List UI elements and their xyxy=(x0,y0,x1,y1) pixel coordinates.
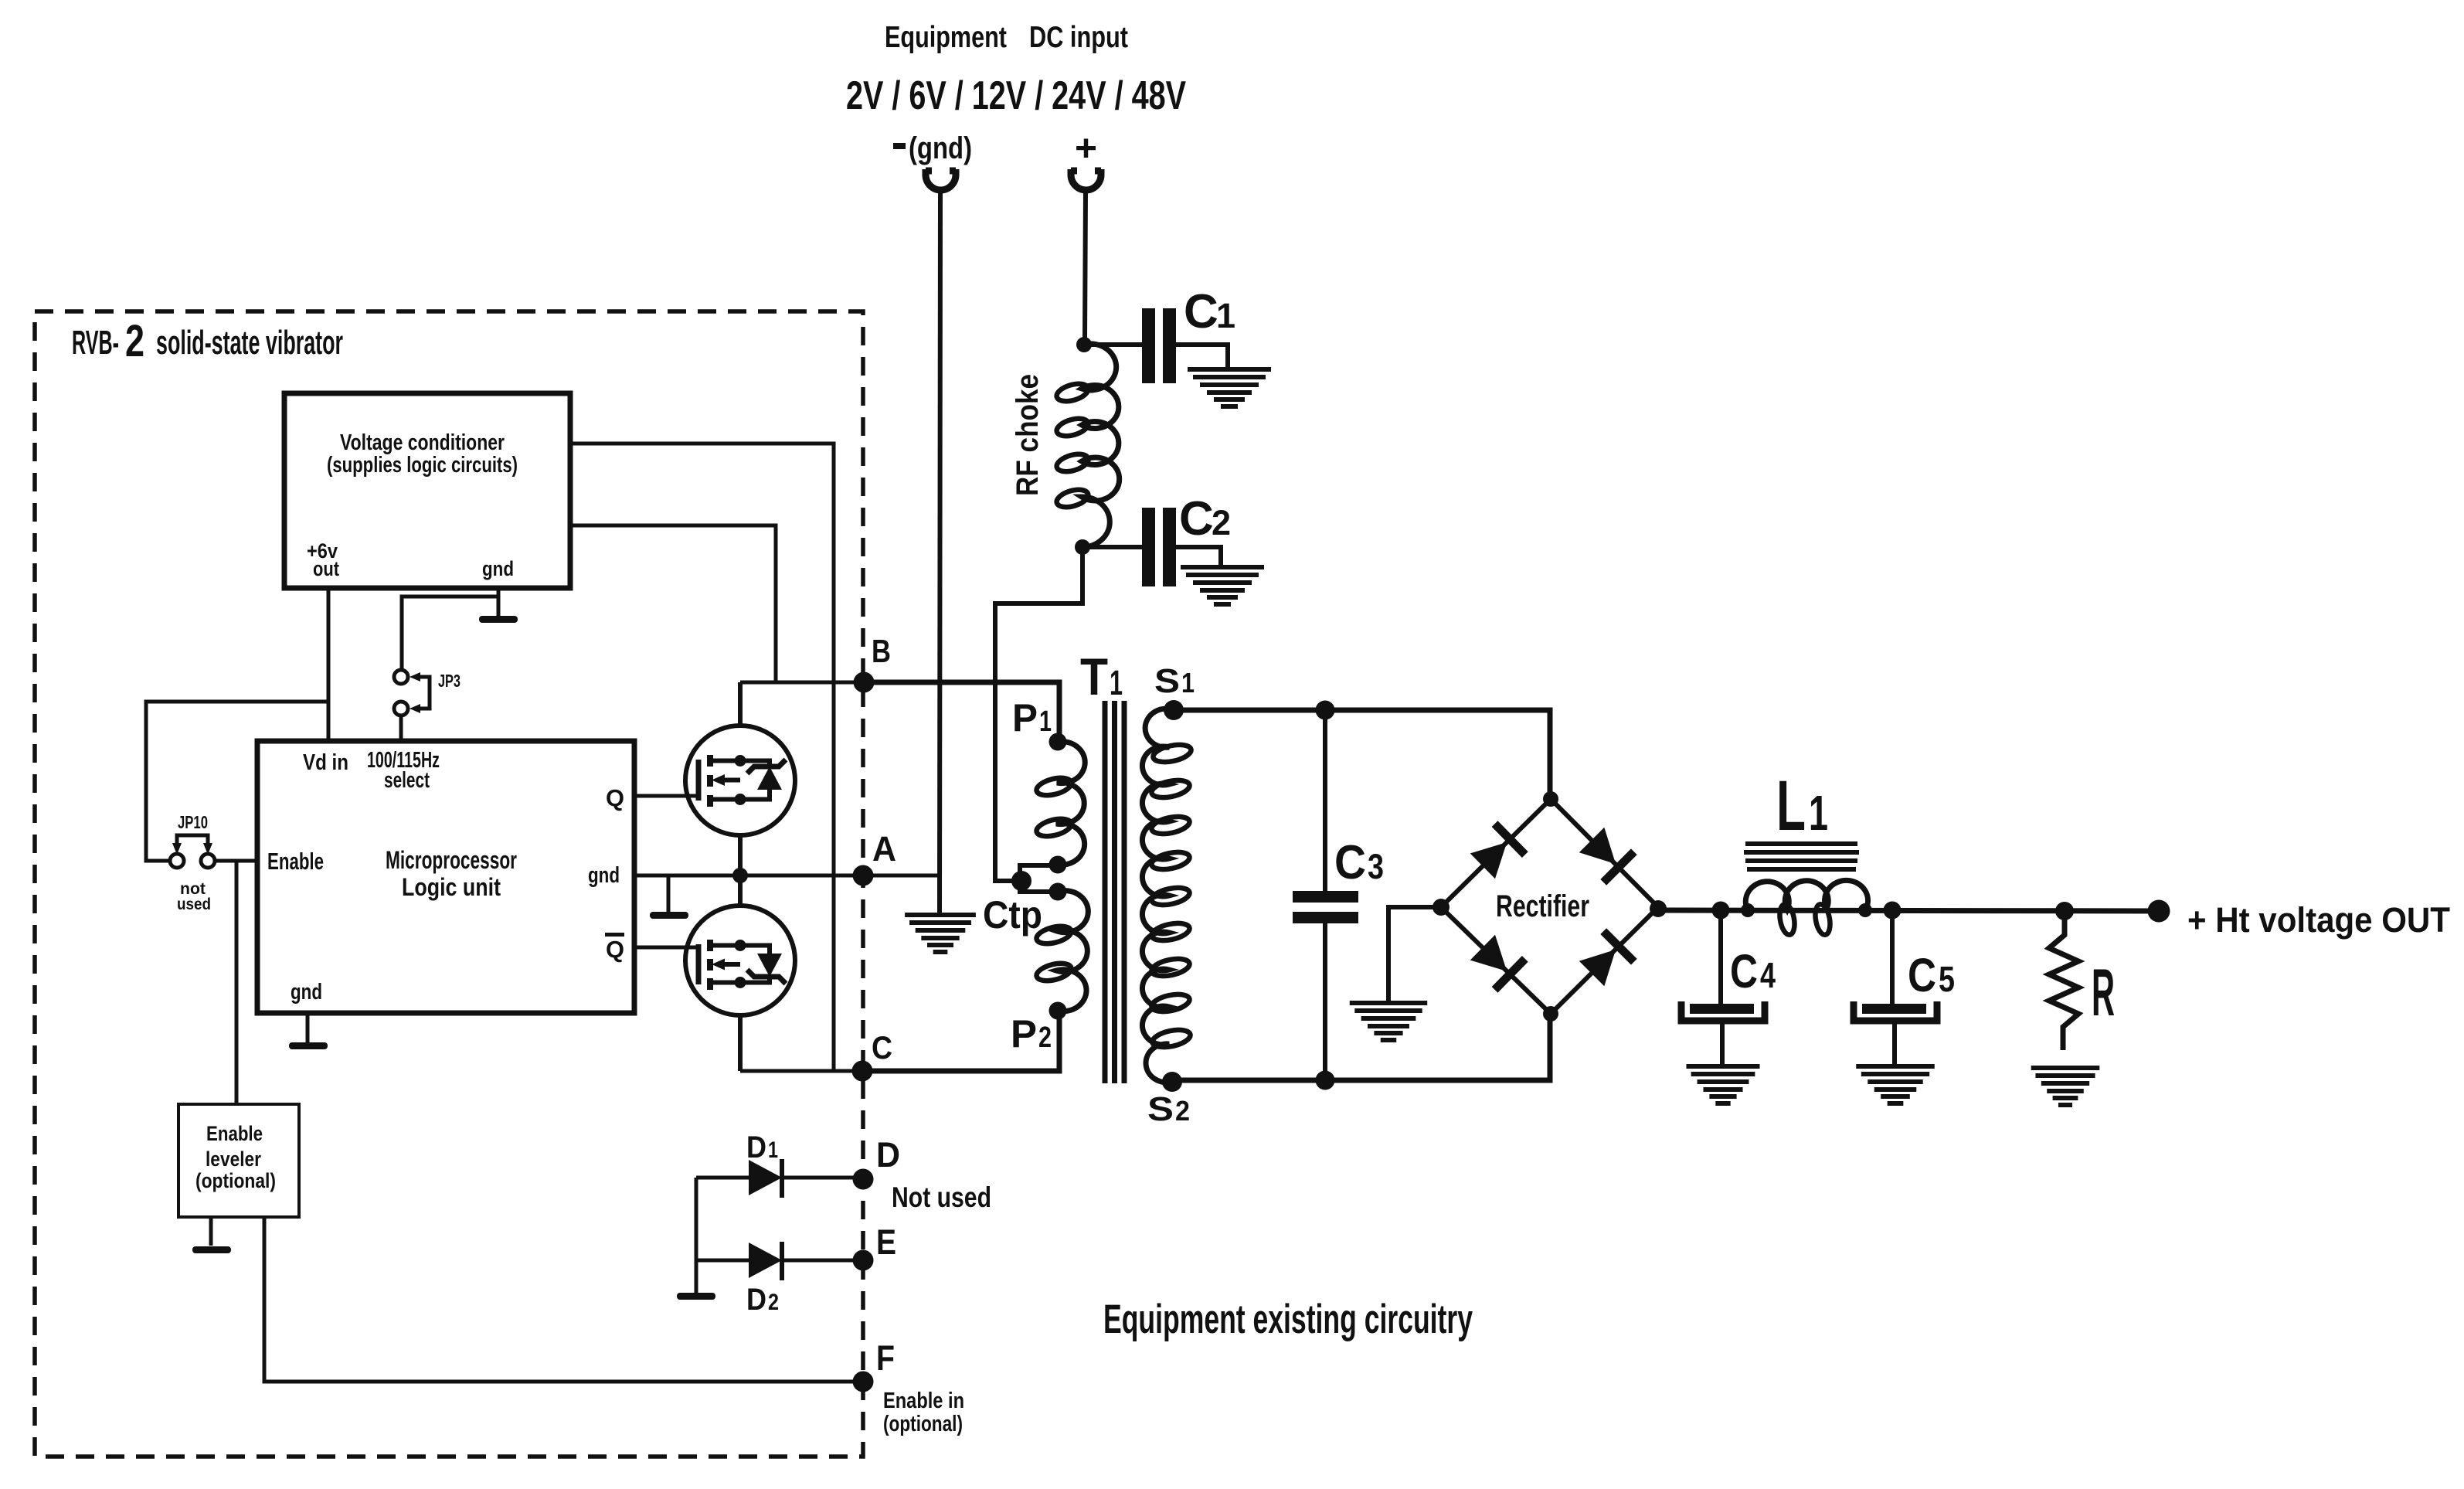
node L1 right end xyxy=(1858,903,1872,917)
svg-text:select: select xyxy=(384,768,430,793)
node C4 junction xyxy=(1712,902,1730,920)
node F xyxy=(853,1372,874,1392)
svg-text:gnd: gnd xyxy=(482,557,514,580)
svg-text:JP3: JP3 xyxy=(438,671,461,691)
node A xyxy=(853,865,874,886)
wire B line xyxy=(740,681,863,685)
node choke bottom junction xyxy=(1075,539,1090,555)
diode bridge upper-left xyxy=(1467,821,1528,881)
svg-text:Logic unit: Logic unit xyxy=(402,873,501,901)
svg-text:Ctp: Ctp xyxy=(983,893,1042,937)
node Ctp xyxy=(1011,871,1031,891)
wire MCU bottom gnd xyxy=(306,1013,310,1043)
svg-text:P: P xyxy=(1012,696,1038,739)
svg-text:1: 1 xyxy=(1809,785,1828,841)
winding T1 secondary xyxy=(1142,709,1174,1083)
svg-text:C: C xyxy=(872,1029,892,1066)
svg-text:C: C xyxy=(1184,285,1218,338)
node B xyxy=(854,672,875,693)
wire JP3 to select pin xyxy=(399,716,403,741)
svg-text:(supplies logic circuits): (supplies logic circuits) xyxy=(327,453,518,478)
svg-text:Enable: Enable xyxy=(206,1122,263,1145)
svg-text:A: A xyxy=(872,829,896,869)
svg-text:1: 1 xyxy=(1181,667,1195,699)
dashed enclosure RVB-2 module xyxy=(35,311,863,1457)
wire choke bottom to C2 xyxy=(1082,545,1142,549)
svg-text:2: 2 xyxy=(1038,1022,1052,1054)
svg-text:Vd in: Vd in xyxy=(303,750,348,775)
svg-text:B: B xyxy=(872,633,891,669)
svg-text:2V / 6V / 12V / 24V / 48V: 2V / 6V / 12V / 24V / 48V xyxy=(846,73,1186,118)
svg-text:S: S xyxy=(1154,662,1180,700)
svg-text:Q: Q xyxy=(606,936,624,963)
wire center tap jog lower xyxy=(1020,881,1058,892)
wire S1 to rectifier top xyxy=(1174,710,1550,799)
wire JP10 right to Enable pin xyxy=(215,859,257,863)
wire lower MOSFET source to C line xyxy=(738,1015,743,1071)
box voltage conditioner U-VC xyxy=(284,393,570,588)
diode bridge lower-right xyxy=(1576,928,1636,988)
capacitor C2 xyxy=(1142,508,1155,586)
svg-text:R: R xyxy=(2092,956,2115,1030)
ground bar MCU bottom xyxy=(289,1042,328,1049)
wire upper MOSFET source to mid node xyxy=(738,835,743,875)
svg-text:E: E xyxy=(876,1222,896,1262)
svg-text:out: out xyxy=(313,557,339,580)
wire gnd input down xyxy=(940,191,940,913)
svg-text:C: C xyxy=(1908,949,1936,1001)
svg-text:RVB-: RVB- xyxy=(72,324,119,362)
svg-text:Equipment: Equipment xyxy=(885,21,1007,54)
rectifier bridge xyxy=(1441,799,1658,1014)
node P2 xyxy=(1049,1002,1067,1020)
svg-text:gnd: gnd xyxy=(588,863,620,888)
svg-text:S: S xyxy=(1147,1090,1174,1128)
wire main output line xyxy=(1658,910,2159,911)
node MOSFET midpoint xyxy=(732,868,748,883)
svg-text:2: 2 xyxy=(768,1290,779,1315)
terminal hook positive xyxy=(1071,169,1101,190)
svg-text:(optional): (optional) xyxy=(883,1412,963,1436)
wire choke bottom to Ctp xyxy=(995,547,1082,881)
node C3 bottom junction xyxy=(1316,1071,1335,1090)
wire leveler left pin to ground xyxy=(209,1217,213,1246)
wire lower MOSFET drain up to mid node xyxy=(738,875,743,906)
node choke top junction xyxy=(1076,337,1092,352)
diode bridge lower-left xyxy=(1467,932,1528,992)
svg-text:C: C xyxy=(1334,836,1366,889)
svg-text:2: 2 xyxy=(1175,1095,1190,1127)
node L1 left end xyxy=(1741,903,1755,917)
ground bar VC gnd xyxy=(479,616,518,623)
node S2 xyxy=(1162,1072,1182,1092)
svg-text:Equipment existing circuitry: Equipment existing circuitry xyxy=(1103,1297,1473,1342)
svg-text:P: P xyxy=(1011,1012,1037,1056)
ground input xyxy=(905,915,976,952)
svg-text:D: D xyxy=(746,1130,766,1164)
wire +6v out down to Vd in xyxy=(327,588,331,741)
wire C2 to ground xyxy=(1176,547,1221,566)
label - (gnd) xyxy=(893,143,906,149)
wire C line xyxy=(740,1069,862,1073)
box microprocessor logic unit U-MCU xyxy=(257,741,634,1013)
wire VC out1 to C line xyxy=(570,444,834,1071)
svg-text:+ Ht voltage OUT: + Ht voltage OUT xyxy=(2187,900,2450,940)
node D xyxy=(853,1169,874,1190)
wire S2 to rectifier bottom xyxy=(1172,1014,1550,1080)
inductor L1 xyxy=(1745,880,1868,910)
winding T1 primary upper xyxy=(1056,742,1085,865)
svg-text:1: 1 xyxy=(1216,296,1235,335)
svg-text:C: C xyxy=(1179,492,1214,546)
wire D1 D2 common anode xyxy=(695,1178,698,1293)
resistor R xyxy=(2049,911,2078,1050)
svg-text:D: D xyxy=(876,1135,900,1175)
ground C2 xyxy=(1181,567,1264,604)
ground bar leveler xyxy=(192,1246,231,1253)
transistor Q2 lower MOSFET xyxy=(685,906,795,1015)
svg-text:C: C xyxy=(1730,945,1758,998)
svg-text:1: 1 xyxy=(1039,705,1052,738)
transformer T1 core xyxy=(1105,701,1124,1083)
jumper JP3 xyxy=(394,670,430,716)
core L1 xyxy=(1744,844,1859,869)
ground bar diodes xyxy=(677,1293,715,1300)
wire upper MOSFET drain to B xyxy=(738,682,743,726)
capacitor C3 xyxy=(1323,710,1327,891)
svg-text:DC input: DC input xyxy=(1029,21,1128,54)
wire center tap jog upper xyxy=(1020,865,1058,881)
ground bar A-line xyxy=(650,912,688,919)
svg-text:Voltage conditioner: Voltage conditioner xyxy=(340,430,505,455)
svg-text:5: 5 xyxy=(1939,959,1955,999)
svg-text:1: 1 xyxy=(1110,663,1123,702)
svg-text:Enable: Enable xyxy=(267,848,324,875)
svg-text:T: T xyxy=(1080,648,1108,706)
node R junction xyxy=(2055,902,2074,920)
svg-text:Q: Q xyxy=(606,784,624,811)
svg-text:JP10: JP10 xyxy=(178,812,208,832)
wire leveler right pin to F xyxy=(264,1217,863,1382)
ground rectifier xyxy=(1350,1003,1427,1040)
wire JP10 left to +6v rail xyxy=(146,702,328,861)
svg-text:D: D xyxy=(746,1283,766,1317)
wire VC gnd pin xyxy=(497,588,501,617)
inductor RF choke xyxy=(1082,344,1120,547)
winding T1 primary lower xyxy=(1056,891,1088,1011)
node P1 xyxy=(1049,733,1067,751)
wire enable branch down to leveler xyxy=(235,861,239,1104)
svg-text:used: used xyxy=(177,896,211,913)
svg-text:1: 1 xyxy=(768,1137,778,1163)
svg-text:+: + xyxy=(1075,128,1097,169)
svg-text:Enable in: Enable in xyxy=(883,1389,964,1413)
svg-text:solid-state vibrator: solid-state vibrator xyxy=(156,324,343,362)
svg-text:(gnd): (gnd) xyxy=(909,131,972,165)
svg-text:Microprocessor: Microprocessor xyxy=(386,846,517,874)
svg-text:Not used: Not used xyxy=(892,1181,991,1213)
node C3 top junction xyxy=(1316,701,1335,720)
node C5 junction xyxy=(1884,902,1902,920)
capacitor C4 xyxy=(1718,910,1723,1005)
svg-text:L: L xyxy=(1776,767,1806,845)
transistor Q1 upper MOSFET xyxy=(685,726,795,835)
jumper JP10 xyxy=(170,835,215,868)
svg-text:(optional): (optional) xyxy=(195,1169,276,1192)
svg-text:2: 2 xyxy=(125,316,144,366)
wire + input down xyxy=(1085,191,1086,342)
node primary upper inner end xyxy=(1049,856,1067,874)
diode D1 xyxy=(696,1176,749,1180)
svg-text:F: F xyxy=(876,1338,895,1378)
svg-text:Rectifier: Rectifier xyxy=(1496,889,1589,923)
diode bridge upper-right xyxy=(1576,824,1636,885)
wire choke top to C1 xyxy=(1084,342,1142,347)
svg-text:2: 2 xyxy=(1212,503,1231,542)
wire gnd/A line xyxy=(634,874,940,878)
node C xyxy=(852,1061,873,1082)
node E xyxy=(853,1250,874,1271)
node S1 xyxy=(1164,700,1184,720)
node output terminal xyxy=(2148,900,2170,923)
svg-text:4: 4 xyxy=(1760,955,1776,995)
svg-text:gnd: gnd xyxy=(291,980,322,1005)
label RVB-2 solid-state vibrator xyxy=(72,316,343,366)
wire gnd stub xyxy=(667,875,671,913)
svg-text:RF choke: RF choke xyxy=(1011,374,1045,496)
ground C1 xyxy=(1188,369,1271,406)
diode D2 xyxy=(696,1259,749,1263)
svg-text:leveler: leveler xyxy=(206,1147,261,1171)
wire rectifier left to ground xyxy=(1388,907,1441,1001)
box enable leveler xyxy=(178,1104,299,1217)
svg-text:3: 3 xyxy=(1368,847,1384,886)
wire C1 to ground xyxy=(1176,345,1228,368)
terminal hook negative xyxy=(926,169,956,190)
wire Qbar to lower MOSFET gate xyxy=(634,946,698,950)
capacitor C1 xyxy=(1142,308,1155,383)
wire gnd branch to JP3 xyxy=(402,597,498,670)
capacitor C5 xyxy=(1890,910,1895,1005)
node primary lower inner end xyxy=(1049,883,1067,901)
wire Q to upper MOSFET gate xyxy=(634,794,698,798)
wire VC out2 to B line xyxy=(570,525,776,682)
